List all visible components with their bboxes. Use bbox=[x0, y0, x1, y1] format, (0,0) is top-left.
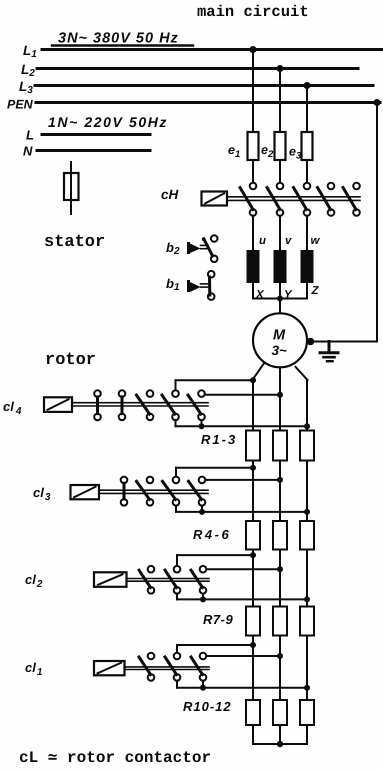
wire cl1 pole3 to column 2 bbox=[206, 655, 280, 657]
wire L3 drop to fuse e3 bbox=[306, 86, 308, 133]
wire column 3 segment R3 to R6 bbox=[306, 461, 308, 522]
wire L2 drop to fuse e2 bbox=[279, 68, 281, 132]
svg-text:cl2: cl2 bbox=[25, 572, 43, 590]
svg-text:u: u bbox=[259, 235, 266, 247]
svg-text:L3: L3 bbox=[19, 79, 33, 96]
label v bbox=[285, 235, 292, 247]
resistor R11 bbox=[273, 700, 287, 725]
node cl1 bus junction a bbox=[200, 685, 206, 691]
svg-text:R7-9: R7-9 bbox=[203, 612, 233, 627]
contact cl4 open pole 3 bbox=[137, 390, 154, 420]
ground earth symbol bbox=[320, 342, 338, 362]
wire L3 phase line bbox=[35, 84, 373, 87]
wire underline under 380V label bbox=[52, 44, 193, 46]
title: main circuit bbox=[197, 3, 309, 21]
wire PEN phase line bbox=[36, 101, 380, 104]
winding u stator winding bbox=[247, 250, 260, 283]
svg-text:L: L bbox=[26, 128, 34, 143]
contact cl1 open pole 1 bbox=[139, 653, 154, 681]
contact cH aux pole 5 bbox=[343, 183, 360, 216]
resistor R6 bbox=[300, 521, 314, 550]
wire N line bbox=[37, 149, 150, 152]
motor M 3~ bbox=[253, 313, 307, 367]
node cl4 bus junction b bbox=[304, 423, 310, 429]
wire L2 phase line bbox=[37, 67, 358, 70]
svg-text:cl1: cl1 bbox=[25, 660, 43, 678]
node cl2 bus junction a bbox=[200, 596, 206, 602]
wire cl1 pole2 to column 1 bbox=[177, 645, 253, 653]
svg-text:3N~ 380V 50 Hz: 3N~ 380V 50 Hz bbox=[58, 31, 179, 47]
label b1 bbox=[166, 276, 180, 293]
wire cl3 pole4 to column 2 bbox=[205, 479, 280, 481]
label 1N~ 220V 50Hz bbox=[48, 114, 168, 130]
wire cl3 shorting bus bbox=[176, 506, 307, 512]
contact cl3 open pole 2 bbox=[137, 477, 154, 506]
node cl3 bus junction a bbox=[199, 509, 205, 515]
node cl4 bus junction a bbox=[199, 423, 205, 429]
wire L1 drop to fuse e1 bbox=[252, 50, 254, 133]
wire cH pole2 to winding v bbox=[279, 216, 281, 250]
wire cl1 linkage bar bbox=[125, 667, 210, 670]
wire cl2 linkage bar bbox=[127, 579, 210, 582]
wire cl4 linkage bar bbox=[72, 403, 208, 406]
wire cl2 pole2 to column 1 bbox=[177, 555, 253, 566]
label e3 bbox=[289, 145, 302, 162]
svg-text:e3: e3 bbox=[289, 145, 302, 162]
wire column 3 segment R6 to R9 bbox=[306, 550, 308, 607]
svg-text:cl4: cl4 bbox=[3, 399, 22, 417]
wire cl2 shorting bus bbox=[177, 594, 307, 600]
resistor R8 bbox=[273, 607, 287, 636]
label R4-6 bbox=[193, 527, 231, 542]
label PEN bbox=[7, 98, 34, 112]
resistor R9 bbox=[300, 607, 314, 636]
node cl1 column2 junction bbox=[277, 653, 283, 659]
fuse e1 bbox=[248, 132, 259, 183]
contact cl3 open pole 4 bbox=[189, 477, 206, 506]
svg-text:cl3: cl3 bbox=[33, 485, 51, 503]
contact cH aux pole 4 bbox=[318, 183, 335, 216]
coil cl1 contactor coil bbox=[94, 661, 125, 675]
wire rotor lead 3 from motor bbox=[296, 367, 308, 431]
label X bbox=[255, 289, 265, 301]
button b1 normally-closed pushbutton bbox=[187, 271, 215, 300]
contact cH pole 3 bbox=[294, 183, 311, 216]
svg-text:cH: cH bbox=[161, 187, 179, 202]
contact cl1 open pole 2 bbox=[165, 653, 180, 681]
svg-text:N: N bbox=[23, 144, 33, 159]
node motor frame earth junction bbox=[307, 338, 315, 346]
svg-text:L1: L1 bbox=[23, 43, 37, 60]
svg-text:Z: Z bbox=[311, 285, 320, 297]
node rotor lead 2 junction bbox=[277, 392, 283, 398]
wire L1 phase line bbox=[42, 48, 383, 51]
node star point junction bbox=[277, 296, 283, 302]
label stator bbox=[44, 233, 105, 252]
svg-text:3~: 3~ bbox=[272, 343, 288, 358]
label b2 bbox=[166, 240, 180, 257]
contact cH pole 2 bbox=[267, 183, 283, 216]
wire cl4 shorting bus bbox=[176, 420, 308, 426]
label u bbox=[259, 235, 266, 247]
contact cl1 open pole 3 bbox=[191, 653, 206, 681]
svg-text:b2: b2 bbox=[166, 240, 180, 257]
wire cl3 pole3 to column 1 bbox=[176, 468, 253, 477]
svg-text:R10-12: R10-12 bbox=[183, 699, 232, 714]
label e2 bbox=[261, 143, 274, 160]
node cl2 column2 junction bbox=[277, 566, 283, 572]
svg-text:cL ≃ rotor contactor: cL ≃ rotor contactor bbox=[19, 749, 211, 767]
svg-text:e2: e2 bbox=[261, 143, 274, 160]
svg-text:1N~ 220V 50Hz: 1N~ 220V 50Hz bbox=[48, 114, 168, 130]
node resistor star junction bbox=[277, 741, 283, 747]
wire column 2 segment R8 to R11 bbox=[279, 636, 281, 701]
svg-text:stator: stator bbox=[44, 233, 105, 252]
resistor R3 bbox=[300, 431, 314, 461]
wire cH pole3 to winding w bbox=[306, 216, 308, 250]
node cl1 bus junction b bbox=[304, 685, 310, 691]
label cH bbox=[161, 187, 179, 202]
svg-text:v: v bbox=[285, 235, 292, 247]
wire cH linkage bar bbox=[227, 197, 360, 201]
svg-text:e1: e1 bbox=[228, 143, 240, 160]
wire rotor resistor star bus bbox=[253, 725, 307, 744]
winding v stator winding bbox=[274, 250, 287, 283]
coil cl2 contactor coil bbox=[94, 572, 127, 587]
coil cl3 contactor coil bbox=[71, 485, 100, 499]
node cl2 column1 junction bbox=[250, 552, 256, 558]
label cL = rotor contactor bbox=[19, 749, 211, 767]
resistor R1 bbox=[246, 431, 260, 461]
wire cH pole1 to winding u bbox=[252, 216, 254, 250]
fuse stator-circuit fuse bbox=[64, 162, 79, 214]
label cl2 bbox=[25, 572, 43, 590]
node cl3 bus junction b bbox=[304, 509, 310, 515]
wire rotor lead 2 from motor bbox=[205, 367, 280, 430]
wire rotor lead 1 from motor bbox=[176, 363, 265, 431]
fuse e3 bbox=[302, 132, 313, 183]
contact cl3 closed pole 1 bbox=[121, 477, 128, 506]
label Y bbox=[284, 289, 293, 301]
coil cH contactor coil bbox=[202, 192, 228, 206]
label N bbox=[23, 144, 33, 159]
node cl2 bus junction b bbox=[304, 596, 310, 602]
coil cl4 contactor coil bbox=[44, 397, 72, 412]
svg-text:PEN: PEN bbox=[7, 98, 34, 112]
node rotor lead 1 junction bbox=[250, 377, 256, 383]
label cl3 bbox=[33, 485, 51, 503]
winding w stator winding bbox=[301, 250, 314, 283]
label R1-3 bbox=[201, 432, 237, 447]
wire column 1 segment R7 to R10 bbox=[252, 636, 254, 701]
resistor R12 bbox=[300, 700, 314, 725]
svg-text:R4-6: R4-6 bbox=[193, 527, 231, 542]
node junction L2 tap bbox=[277, 65, 284, 72]
label cl4 bbox=[3, 399, 22, 417]
contact cl4 open pole 5 bbox=[188, 390, 205, 420]
node cl3 column1 junction bbox=[250, 465, 256, 471]
contact cl2 open pole 1 bbox=[139, 566, 154, 594]
button b2 normally-open pushbutton bbox=[187, 235, 218, 262]
label cl1 bbox=[25, 660, 43, 678]
node junction L3 tap bbox=[304, 82, 311, 89]
svg-text:rotor: rotor bbox=[45, 351, 96, 370]
svg-text:w: w bbox=[311, 235, 321, 247]
svg-text:L2: L2 bbox=[21, 62, 35, 79]
contact cH pole 1 bbox=[240, 183, 256, 216]
wire cl2 pole3 to column 2 bbox=[206, 568, 280, 570]
label e1 bbox=[228, 143, 240, 160]
label w bbox=[311, 235, 321, 247]
svg-text:R1-3: R1-3 bbox=[201, 432, 237, 447]
contact cl3 open pole 3 bbox=[163, 477, 180, 506]
wire column 2 segment R5 to R8 bbox=[279, 550, 281, 607]
wire motor frame to PEN bbox=[311, 341, 378, 343]
wire column 1 segment R1 to R4 bbox=[252, 461, 254, 522]
label rotor bbox=[45, 351, 96, 370]
resistor R5 bbox=[273, 521, 287, 550]
label L1 bbox=[23, 43, 37, 60]
svg-text:M: M bbox=[273, 328, 286, 344]
resistor R4 bbox=[246, 521, 260, 550]
resistor R10 bbox=[246, 700, 260, 725]
svg-text:b1: b1 bbox=[166, 276, 180, 293]
contact cl2 open pole 3 bbox=[191, 566, 206, 594]
node junction L1 tap bbox=[250, 46, 257, 53]
contact cl2 open pole 2 bbox=[165, 566, 180, 594]
label R7-9 bbox=[203, 612, 233, 627]
wire PEN drop to motor frame bbox=[376, 103, 378, 342]
node cl1 column1 junction bbox=[250, 642, 256, 648]
contact cl4 open pole 4 bbox=[162, 390, 179, 420]
label R10-12 bbox=[183, 699, 232, 714]
wire column 1 segment R4 to R7 bbox=[252, 550, 254, 607]
wire column 3 segment R9 to R12 bbox=[306, 636, 308, 701]
label L3 bbox=[19, 79, 33, 96]
wire star connection of windings bbox=[253, 283, 307, 299]
wire star point to motor bbox=[279, 299, 281, 314]
label L bbox=[26, 128, 34, 143]
label Z bbox=[311, 285, 320, 297]
label L2 bbox=[21, 62, 35, 79]
contact cl4 closed pole 1 bbox=[94, 390, 101, 420]
resistor R2 bbox=[273, 431, 287, 461]
wire cl1 shorting bus bbox=[177, 681, 307, 688]
wire L line bbox=[42, 133, 150, 136]
fuse e2 bbox=[275, 132, 286, 183]
node cl3 column2 junction bbox=[277, 477, 283, 483]
resistor R7 bbox=[246, 607, 260, 636]
label 3N~ 380V 50 Hz bbox=[58, 31, 179, 47]
svg-text:main circuit: main circuit bbox=[197, 3, 309, 21]
wire column 2 segment R2 to R5 bbox=[279, 461, 281, 522]
wire cl3 linkage bar bbox=[99, 490, 208, 493]
node junction PEN tap bbox=[374, 99, 381, 106]
contact cl4 closed pole 2 bbox=[119, 390, 126, 420]
